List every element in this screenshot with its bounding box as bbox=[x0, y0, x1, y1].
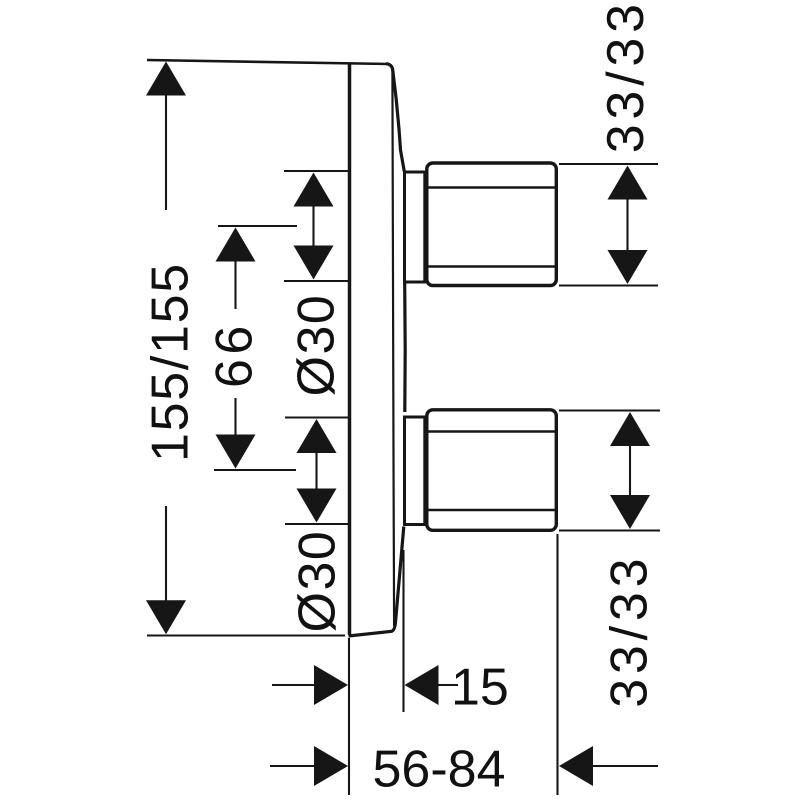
dim 155/155: dimension line upper segment bbox=[165, 93, 167, 210]
lower handle knob bbox=[427, 410, 557, 531]
svg-text:Ø30: Ø30 bbox=[289, 530, 347, 633]
dim O30 upper: up arrowhead bbox=[294, 173, 334, 207]
svg-text:155/155: 155/155 bbox=[142, 262, 200, 462]
upper valve stem bbox=[405, 172, 425, 282]
dim 33/33 lower right: bottom extension line bbox=[559, 529, 660, 531]
dim O30 lower: down arrowhead bbox=[297, 489, 337, 523]
plate right silhouette top section bbox=[386, 64, 404, 172]
dim 155/155: bottom reference line bbox=[147, 634, 345, 636]
upper handle knob bbox=[427, 163, 557, 286]
dim O30 upper: dimension line bbox=[312, 200, 314, 250]
dim 15: wall-plane extension line bbox=[348, 638, 350, 795]
dim O30 lower: dimension line bbox=[315, 446, 317, 496]
dim 15: plate-face extension line bbox=[402, 550, 404, 712]
dim O30 upper: top reference line bbox=[284, 170, 348, 172]
dim 66: down arrowhead bbox=[216, 435, 256, 469]
upper knob inner line top bbox=[428, 186, 556, 188]
top reference line / plate top edge bbox=[147, 60, 389, 64]
dim 33/33 upper right: down arrowhead bbox=[608, 250, 648, 284]
plate bottom edge bbox=[349, 631, 393, 636]
dim 66: up arrowhead bbox=[216, 228, 256, 262]
dim 33/33 upper right: bottom extension line bbox=[559, 284, 658, 286]
svg-text:33/33: 33/33 bbox=[597, 0, 655, 153]
dim 66: dimension line lower segment bbox=[234, 398, 236, 436]
dim 56-84: knob-face extension line bbox=[556, 534, 558, 795]
lower knob inner line top bbox=[428, 430, 556, 432]
dim 56-84: left leader line bbox=[270, 765, 316, 767]
dim 15: left arrowhead bbox=[314, 665, 348, 705]
svg-text:66: 66 bbox=[206, 321, 264, 388]
dim 33/33 lower right: top extension line bbox=[559, 409, 660, 411]
dim 56-84: right leader line bbox=[592, 765, 658, 767]
dim 56-84: left arrowhead bbox=[314, 746, 348, 786]
plate right silhouette middle section bbox=[403, 284, 407, 413]
dim 155/155: down arrowhead bbox=[146, 600, 186, 634]
dim 15: right arrowhead bbox=[405, 665, 439, 705]
escutcheon plate left edge bbox=[348, 63, 352, 635]
dim 66: top reference line bbox=[218, 225, 297, 227]
dim O30 lower: top reference line bbox=[285, 416, 348, 418]
dim 15: left leader line bbox=[272, 684, 316, 686]
dim 33/33 lower right: dimension line bbox=[629, 444, 631, 497]
dim 33/33 lower right: up arrowhead bbox=[610, 412, 650, 446]
svg-text:33/33: 33/33 bbox=[601, 554, 659, 708]
lower knob inner line bottom bbox=[428, 509, 556, 511]
svg-text:56-84: 56-84 bbox=[373, 741, 506, 799]
dim 33/33 upper right: dimension line bbox=[626, 198, 628, 252]
dim O30 upper: down arrowhead bbox=[294, 246, 334, 280]
dim 15: right leader line bbox=[438, 684, 458, 686]
dim 155/155: up arrowhead bbox=[146, 62, 186, 96]
dim O30 upper: bottom reference line bbox=[284, 280, 348, 282]
dim O30 lower: up arrowhead bbox=[297, 419, 337, 453]
plate dome inner edge line bbox=[392, 69, 394, 626]
dim 33/33 lower right: down arrowhead bbox=[610, 495, 650, 529]
upper knob inner line bottom bbox=[428, 265, 556, 267]
dim 33/33 upper right: up arrowhead bbox=[608, 166, 648, 200]
svg-text:15: 15 bbox=[451, 659, 509, 717]
plate right silhouette bottom section bbox=[392, 527, 404, 632]
dim 33/33 upper right: top extension line bbox=[559, 163, 658, 165]
svg-text:Ø30: Ø30 bbox=[288, 294, 346, 397]
dim 155/155: dimension line lower segment bbox=[165, 506, 167, 601]
dim O30 lower: bottom reference line bbox=[285, 523, 349, 525]
dim 66: bottom reference line bbox=[214, 469, 296, 471]
dim 66: dimension line upper segment bbox=[234, 260, 236, 309]
dim 56-84: right arrowhead bbox=[559, 746, 593, 786]
lower valve stem bbox=[405, 417, 425, 525]
